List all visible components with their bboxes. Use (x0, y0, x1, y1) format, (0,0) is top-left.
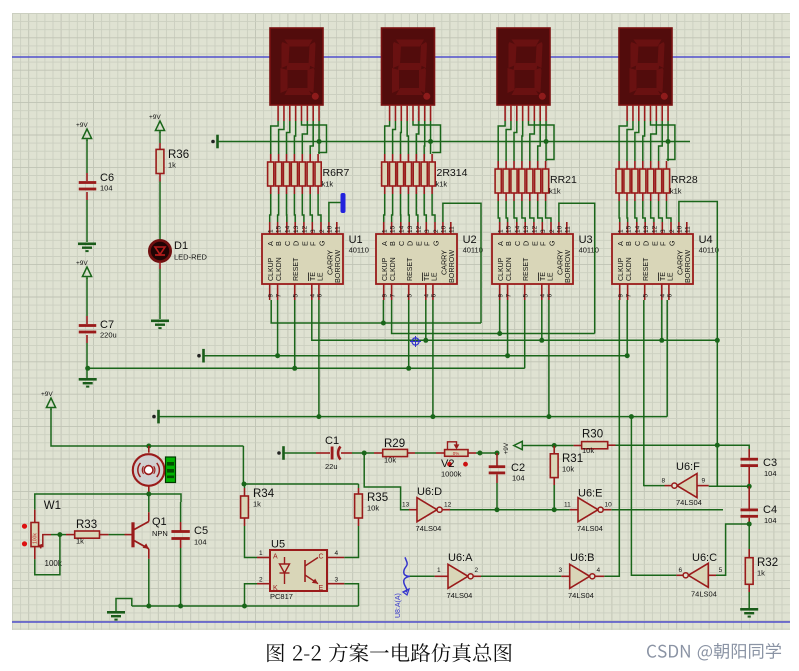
display DS1 pin stubs (277, 105, 279, 121)
node C4 bottom (747, 522, 752, 527)
wire U5 pin3 (344, 584, 358, 606)
svg-text:RESET: RESET (407, 257, 414, 281)
wire C4 to U6:C input (716, 524, 749, 575)
svg-text:3: 3 (310, 229, 317, 233)
svg-text:BORROW: BORROW (683, 250, 692, 283)
terminal T4 (277, 451, 281, 455)
svg-text:U6:A: U6:A (448, 552, 473, 564)
sheet border line bottom (12, 621, 790, 623)
wire junction down to U6:F input line (716, 445, 718, 486)
inverter U6:E (578, 498, 598, 522)
resistor pack RN2 (2R314) (384, 154, 386, 162)
svg-text:CLKDN: CLKDN (390, 257, 397, 281)
svg-text:22u: 22u (325, 462, 338, 471)
svg-text:LE: LE (431, 272, 438, 281)
svg-text:F: F (309, 241, 318, 246)
svg-text:100k: 100k (33, 533, 39, 544)
svg-text:104: 104 (764, 516, 777, 525)
svg-text:74LS04: 74LS04 (447, 591, 473, 600)
7-segment display DS3 (497, 28, 550, 105)
svg-text:V2: V2 (441, 458, 454, 470)
svg-text:RESET: RESET (523, 257, 530, 281)
node RESET U1 (292, 366, 297, 371)
svg-text:10: 10 (557, 225, 564, 233)
node Q1 emitter bus (146, 604, 151, 609)
capacitor C3 (741, 458, 759, 461)
display DS3 pin stubs (504, 105, 506, 121)
svg-text:4: 4 (540, 294, 547, 298)
wire U4 carry cascade (679, 202, 717, 487)
node TE bus end (715, 338, 720, 343)
node TE bus U3 (539, 338, 544, 343)
resistor R35 (355, 494, 363, 518)
svg-text:+9V: +9V (149, 114, 161, 121)
svg-text:7: 7 (275, 294, 282, 298)
svg-text:15: 15 (625, 225, 632, 233)
svg-text:11: 11 (685, 226, 692, 233)
svg-text:G: G (667, 240, 676, 246)
svg-text:11: 11 (565, 226, 572, 233)
svg-text:F: F (539, 241, 548, 246)
svg-text:C1: C1 (325, 435, 339, 447)
svg-text:5: 5 (719, 567, 723, 574)
wire U3 reset stub (524, 300, 526, 368)
wire U6:E out (603, 509, 611, 511)
node U5 pin2 bus (242, 604, 247, 609)
svg-text:7: 7 (625, 294, 632, 298)
wire C1 to junction (341, 452, 352, 454)
svg-text:U3: U3 (579, 234, 593, 246)
power +9V (C6) (82, 129, 91, 139)
power +9V (R30) (514, 441, 523, 449)
7-segment display DS1 (270, 28, 323, 105)
ground bus bottom-left (116, 599, 132, 612)
svg-text:R34: R34 (253, 488, 275, 500)
svg-text:3: 3 (559, 567, 563, 574)
svg-text:11: 11 (335, 226, 342, 233)
counter U4 40110 (612, 234, 693, 284)
wire +9V to R36 (159, 132, 161, 143)
svg-text:R32: R32 (757, 557, 778, 569)
transistor Q1 (131, 522, 134, 547)
counter U3 40110 (492, 234, 573, 284)
wire display segment bus (218, 141, 690, 143)
origin marker (412, 338, 419, 345)
wire U6:F input (697, 485, 709, 487)
svg-text:40110: 40110 (579, 246, 599, 255)
svg-text:B: B (274, 241, 283, 246)
wire R34-R35 link (244, 483, 359, 485)
wire collector link (148, 494, 150, 512)
capacitor C5 (180, 502, 182, 522)
terminal T3 (152, 415, 156, 419)
svg-text:RR21: RR21 (550, 174, 577, 186)
svg-text:D: D (406, 241, 415, 246)
wire T4 to C1 (284, 452, 316, 454)
svg-text:4: 4 (597, 567, 601, 574)
wire U6:C input stub (708, 574, 716, 576)
wires pack RN4 to counter U4 (618, 201, 621, 222)
svg-text:U6:C: U6:C (692, 552, 717, 564)
svg-text:14: 14 (515, 225, 522, 233)
resistor pack RN3 (RR21) (497, 161, 499, 169)
svg-text:TE: TE (540, 272, 547, 281)
wire +9V to C6 (86, 140, 88, 173)
wire clk link L2 (392, 300, 595, 334)
svg-text:RESET: RESET (643, 257, 650, 281)
svg-text:10k: 10k (562, 465, 574, 474)
node CLKDN U4 (625, 353, 630, 358)
node display bus junction 3 (544, 139, 549, 144)
svg-text:R29: R29 (384, 438, 405, 450)
display DS4 pin stubs (626, 105, 628, 121)
inverter U6:F (677, 474, 697, 498)
svg-text:13: 13 (293, 225, 300, 233)
svg-text:74LS04: 74LS04 (416, 524, 442, 533)
svg-text:CLKDN: CLKDN (276, 257, 283, 281)
node display bus junction 1 (317, 139, 322, 144)
svg-text:13: 13 (523, 225, 530, 233)
svg-text:4: 4 (335, 550, 339, 557)
inverter U6:A (448, 564, 468, 588)
svg-text:12: 12 (416, 225, 423, 233)
wire U6:B out (595, 575, 604, 577)
svg-text:9: 9 (382, 294, 389, 298)
node CLKDN U3 (505, 353, 510, 358)
svg-text:15: 15 (505, 225, 512, 233)
wire U6:C output stub (676, 574, 683, 576)
svg-text:U5: U5 (271, 539, 285, 551)
wires display DS3 to resistor pack (498, 121, 505, 161)
node display bus junction 2 (428, 139, 433, 144)
svg-text:U4: U4 (699, 234, 713, 246)
svg-text:10: 10 (327, 225, 334, 233)
wires display DS1 to resistor pack (271, 121, 278, 154)
svg-text:4: 4 (660, 294, 667, 298)
counter U1 40110 (262, 234, 343, 284)
svg-text:D: D (522, 241, 531, 246)
wire probe to U6:A (410, 575, 435, 577)
wire U1 LE stub (318, 300, 320, 417)
svg-text:3: 3 (335, 577, 339, 584)
svg-text:1000k: 1000k (441, 470, 462, 479)
svg-text:1k: 1k (76, 537, 84, 546)
counter U2 40110 (376, 234, 457, 284)
svg-text:0%: 0% (453, 451, 460, 456)
svg-text:15: 15 (275, 225, 282, 233)
svg-text:C3: C3 (763, 457, 777, 469)
svg-text:15: 15 (389, 225, 396, 233)
capacitor C7 (79, 324, 97, 327)
wire clkup link L1 (271, 300, 481, 323)
svg-text:2R314: 2R314 (437, 167, 468, 179)
svg-text:CLKUP: CLKUP (382, 257, 389, 281)
resistor R36 (156, 149, 164, 173)
wire RESET bus (88, 367, 525, 369)
svg-text:5: 5 (407, 294, 414, 298)
power +9V (R36) (155, 121, 164, 131)
svg-text:TE: TE (424, 272, 431, 281)
svg-text:12: 12 (302, 225, 309, 233)
svg-text:9: 9 (618, 294, 625, 298)
svg-text:1k: 1k (253, 500, 261, 509)
node LE U1 (316, 414, 321, 419)
svg-text:D: D (642, 241, 651, 246)
ground (C6) (78, 243, 96, 246)
node CLKDN U1 (275, 353, 280, 358)
wire R36 to D1 (159, 174, 161, 182)
wire R30 to C3 (608, 444, 616, 446)
blue jumper on U1 carry (341, 193, 346, 213)
wire U2 clkup stub (382, 300, 384, 323)
svg-text:1: 1 (268, 229, 275, 233)
wire V2 to C2 (468, 452, 476, 454)
wire U5 pin1 stub (257, 557, 270, 559)
svg-text:74LS04: 74LS04 (676, 498, 702, 507)
svg-text:CLKDN: CLKDN (626, 257, 633, 281)
node R30 line junction (715, 443, 720, 448)
capacitor C6 (79, 181, 97, 184)
svg-text:7: 7 (505, 293, 512, 297)
svg-text:14: 14 (285, 225, 292, 233)
wire U1 carry to jumper (329, 203, 341, 223)
svg-text:C: C (319, 554, 324, 561)
wire W1 wiper loop (34, 547, 36, 560)
wires display DS2 to resistor pack (385, 121, 390, 154)
svg-text:Q1: Q1 (152, 516, 167, 528)
7-segment display DS4 (619, 28, 672, 105)
svg-text:U6:B: U6:B (570, 552, 594, 564)
led D1 (149, 240, 170, 261)
node motor-collector (146, 492, 151, 497)
node C2 top (495, 451, 500, 456)
resistor R34 (241, 496, 249, 518)
svg-text:10: 10 (441, 225, 448, 233)
wire +9V rail (51, 409, 243, 446)
svg-text:1: 1 (618, 229, 625, 233)
node LE bus to U6:C (629, 414, 634, 419)
svg-text:6: 6 (431, 294, 438, 298)
svg-text:NPN: NPN (152, 529, 168, 538)
resistor R30 (582, 442, 608, 449)
wire U6:C output bus (631, 417, 676, 576)
wire R32 to ground (748, 584, 750, 592)
potentiometer V2 (445, 450, 468, 457)
wire motor top stub (148, 446, 150, 453)
node W1 wiper (57, 532, 62, 537)
wire U4 clkdn stub (626, 300, 628, 356)
wire U1 clkdn stub (277, 300, 279, 356)
wire R35 bottom to U5 pin4 (358, 518, 360, 526)
wire U3 clkup stub (499, 300, 501, 334)
svg-text:R31: R31 (562, 453, 583, 465)
svg-text:C2: C2 (511, 462, 525, 474)
inverter U6:B (570, 564, 590, 588)
svg-text:R35: R35 (367, 492, 388, 504)
node L1-U2 junction (381, 321, 386, 326)
svg-text:104: 104 (100, 184, 113, 193)
wire R31 bottom (553, 478, 555, 485)
wire R32 top (748, 524, 750, 549)
wire rail to R34 (242, 446, 244, 484)
svg-text:U6:F: U6:F (676, 461, 700, 473)
caption text (267, 643, 511, 662)
svg-text:C6: C6 (100, 172, 114, 184)
svg-text:10k: 10k (384, 456, 396, 465)
svg-text:12: 12 (652, 225, 659, 233)
svg-text:6: 6 (317, 294, 324, 298)
svg-text:B: B (624, 241, 633, 246)
wire U4 reset to U6:F (643, 300, 645, 486)
terminal T2 (197, 354, 201, 358)
wire R33 to Q1 base (100, 534, 109, 536)
wire R29 to V2 (408, 452, 416, 454)
wire U6:D out to U6:E in (443, 509, 450, 511)
resistor R32 (745, 558, 753, 585)
svg-text:8: 8 (662, 478, 666, 485)
svg-text:2: 2 (433, 229, 440, 233)
wires display DS4 to resistor pack (619, 121, 627, 161)
power +9V (C7) (82, 267, 91, 277)
svg-text:G: G (547, 240, 556, 246)
svg-text:14: 14 (399, 225, 406, 233)
svg-text:k1k: k1k (670, 187, 682, 196)
svg-text:40110: 40110 (463, 246, 483, 255)
power +9V (motor) (46, 398, 55, 408)
svg-text:BORROW: BORROW (563, 250, 572, 283)
svg-text:10: 10 (677, 225, 684, 233)
node LE U3 (546, 414, 551, 419)
display DS2 pin stubs (389, 105, 391, 121)
wire W1 top stub (34, 510, 36, 523)
svg-text:104: 104 (512, 474, 525, 483)
svg-text:2: 2 (669, 229, 676, 233)
svg-text:13: 13 (407, 225, 414, 233)
svg-text:U6:D: U6:D (417, 486, 442, 498)
svg-text:+9V: +9V (76, 260, 88, 267)
svg-text:5: 5 (293, 294, 300, 298)
resistor R29 (383, 449, 408, 456)
wire U5 pin2 (245, 584, 258, 606)
svg-text:LE: LE (547, 272, 554, 281)
wire U1 reset stub (294, 300, 296, 368)
svg-text:9: 9 (268, 294, 275, 298)
svg-text:A: A (273, 554, 278, 561)
svg-text:RR28: RR28 (671, 174, 698, 186)
svg-text:PC817: PC817 (270, 592, 293, 601)
svg-text:1k: 1k (757, 569, 765, 578)
svg-text:4: 4 (424, 294, 431, 298)
svg-text:2: 2 (259, 577, 263, 584)
svg-text:14: 14 (635, 225, 642, 233)
wire U3 clkdn stub (507, 300, 509, 356)
node C3-C4 junction (747, 484, 752, 489)
svg-text:F: F (659, 241, 668, 246)
node L2-U3 junction (497, 331, 502, 336)
svg-text:13: 13 (402, 502, 410, 509)
wire TE bus (312, 300, 718, 340)
node RESET U2 (406, 366, 411, 371)
svg-text:10: 10 (605, 502, 613, 509)
wire U6:A out to U6:B in (474, 575, 481, 577)
wire +9V to R30 (522, 445, 554, 447)
capacitor C2 (496, 453, 498, 458)
svg-text:U2: U2 (463, 234, 477, 246)
svg-text:11: 11 (449, 226, 456, 233)
node V2-C2 (477, 451, 482, 456)
wire to R30 (554, 445, 573, 447)
node C7 reset bus (85, 366, 90, 371)
svg-text:9: 9 (498, 294, 505, 298)
svg-text:U1: U1 (349, 234, 363, 246)
svg-text:CLKUP: CLKUP (268, 257, 275, 281)
wire U2 reset stub (408, 300, 410, 368)
svg-text:C4: C4 (763, 504, 777, 516)
svg-text:C5: C5 (194, 525, 208, 537)
resistor R33 (75, 531, 100, 538)
node C5 bus (178, 604, 183, 609)
svg-text:LE: LE (317, 272, 324, 281)
wire Q1 emitter to gnd bus (148, 559, 150, 606)
svg-text:R30: R30 (582, 429, 603, 441)
svg-text:U8:A(A): U8:A(A) (395, 593, 402, 618)
ground (D1) (151, 320, 169, 323)
svg-text:11: 11 (564, 502, 571, 509)
tachometer indicator (166, 457, 176, 483)
wire R31 top stub (553, 446, 555, 454)
wires pack RN1 to counter U1 (270, 194, 271, 222)
svg-text:CLKUP: CLKUP (618, 257, 625, 281)
svg-text:7: 7 (389, 294, 396, 298)
svg-text:k1k: k1k (549, 187, 561, 196)
svg-text:E: E (319, 585, 324, 592)
resistor R31 (550, 454, 558, 478)
svg-text:104: 104 (764, 469, 777, 478)
node LE U2 (430, 414, 435, 419)
wire +9V to C7 (86, 278, 88, 316)
svg-text:k1k: k1k (322, 180, 334, 189)
svg-text:BORROW: BORROW (333, 250, 342, 283)
node motor top (146, 444, 151, 449)
resistor pack RN4 (RR28) (618, 161, 620, 169)
svg-text:4: 4 (310, 294, 317, 298)
svg-text:2: 2 (475, 567, 479, 574)
wire junction to R29 (364, 452, 374, 454)
svg-text:+9V: +9V (503, 442, 510, 454)
wire wiper to R33 (51, 534, 60, 536)
node R31 bottom (552, 507, 557, 512)
node TE bus U2 (423, 338, 428, 343)
wire U4 clkup to U6:B (604, 300, 619, 576)
svg-text:2: 2 (549, 229, 556, 233)
svg-text:LE: LE (667, 272, 674, 281)
inverter U6:D (417, 498, 437, 522)
svg-text:B: B (504, 241, 513, 246)
wire U3 LE stub (548, 300, 550, 417)
node display bus junction 4 (666, 139, 671, 144)
svg-text:TE: TE (660, 272, 667, 281)
wire R34 top stub (244, 484, 246, 488)
resistor pack RN1 (R6R7) (270, 154, 272, 162)
wire CLKDN bus (204, 355, 627, 357)
svg-text:1: 1 (498, 229, 505, 233)
svg-text:2: 2 (319, 229, 326, 233)
wire U2 carry cascade (443, 203, 481, 323)
svg-text:B: B (388, 241, 397, 246)
svg-text:CLKDN: CLKDN (506, 257, 513, 281)
svg-text:R33: R33 (76, 519, 97, 531)
capacitor C1 (331, 447, 334, 460)
